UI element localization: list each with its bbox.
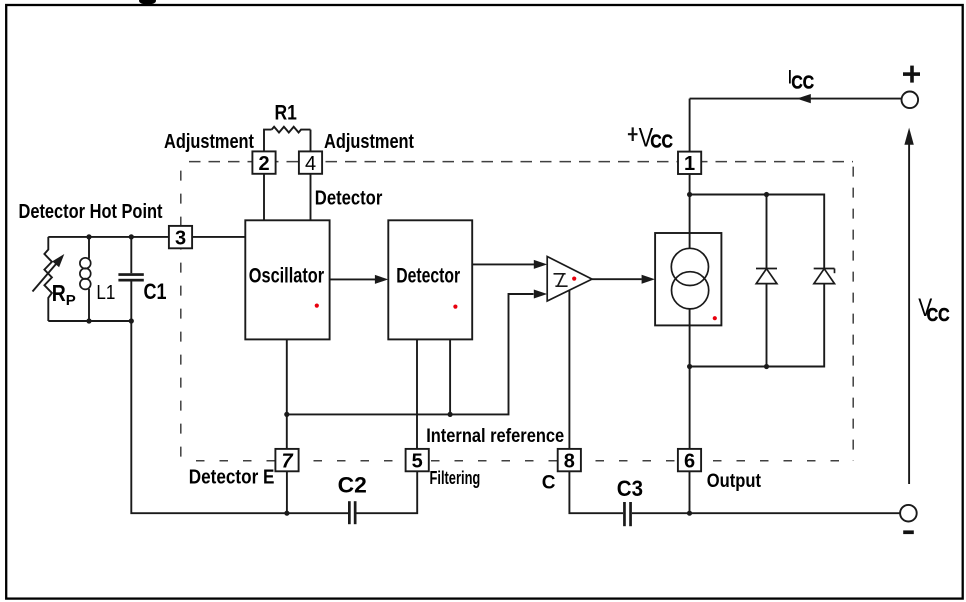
IC dashed boundary bottom edge (181, 460, 853, 462)
wire detector bottom to reference rail (449, 339, 451, 414)
svg-text:R: R (52, 280, 66, 306)
internal reference rail (287, 294, 534, 414)
wire RP L1 C1 bottom (48, 320, 131, 322)
diode D1 bottom lead (766, 284, 768, 367)
wire detector to comparator (472, 263, 534, 265)
svg-text:4: 4 (305, 153, 316, 175)
svg-text:2: 2 (258, 153, 269, 175)
wire pin 2 to oscillator (263, 174, 265, 221)
wire detector bottom to pin 5 (416, 339, 418, 449)
plus terminal (902, 92, 919, 109)
capacitor C1 plates (118, 273, 143, 276)
wire C1 bottom to lower bus (131, 321, 348, 513)
resistor R1 zigzag (272, 127, 311, 133)
VCC arrow shaft (908, 144, 910, 484)
junction dots left network (86, 234, 91, 239)
capacitor C2 plates (348, 501, 351, 524)
comparator hysteresis symbol (554, 274, 568, 286)
zener diode D2 (814, 269, 835, 284)
svg-text:7: 7 (281, 450, 293, 472)
svg-text:C3: C3 (617, 476, 643, 501)
svg-text:Filtering: Filtering (430, 468, 481, 488)
supply rail bottom (690, 284, 825, 367)
wire oscillator to detector (330, 278, 376, 280)
svg-text:P: P (66, 292, 76, 309)
svg-text:Adjustment: Adjustment (164, 131, 254, 153)
svg-text:C: C (542, 472, 556, 493)
current source block U4 (655, 233, 721, 325)
svg-text:Detector: Detector (396, 265, 460, 288)
pin 6 box (678, 449, 701, 471)
wire comparator output (592, 278, 642, 280)
pin 4 box (299, 151, 322, 173)
svg-text:CC: CC (791, 72, 814, 92)
oscillator block U1 (245, 220, 329, 339)
wire R1 right lead (310, 130, 312, 152)
inductor L1 lead bottom (88, 289, 90, 321)
arrowhead oscillator to detector (375, 275, 388, 284)
svg-text:Output: Output (707, 471, 762, 492)
pin 7 box (275, 449, 298, 471)
svg-text:R1: R1 (275, 102, 298, 125)
arrowhead reference to comparator (534, 290, 547, 299)
svg-text:C1: C1 (144, 279, 167, 304)
wire ICC line (690, 98, 902, 100)
junction dots reference rail (284, 412, 289, 417)
wire pin 4 to oscillator (310, 174, 312, 221)
svg-text:C2: C2 (338, 473, 367, 498)
svg-text:Internal reference: Internal reference (426, 426, 564, 447)
arrowhead comparator to current source (642, 275, 655, 284)
RP arrow (33, 264, 57, 292)
wire detector hot point to pin 3 (48, 236, 169, 238)
capacitor C3 plates (623, 502, 626, 526)
comparator U3 (547, 257, 592, 302)
wire plus terminal to pin 1 (689, 99, 691, 152)
arrowhead VCC (904, 128, 913, 145)
arrowhead detector to comparator (534, 260, 547, 269)
svg-text:Detector E: Detector E (189, 466, 275, 488)
minus terminal (900, 505, 917, 522)
svg-text:8: 8 (564, 450, 575, 472)
cropped title descender (139, 0, 156, 5)
wire pin 8 to C3 (569, 471, 623, 513)
label +VCC (628, 127, 638, 141)
wire pin 3 to oscillator (192, 236, 245, 238)
svg-text:3: 3 (175, 227, 186, 249)
current source circles (671, 248, 708, 309)
arrowhead ICC (797, 94, 811, 103)
pin 3 box (169, 226, 192, 248)
IC dashed boundary top edge (181, 161, 853, 163)
svg-text:5: 5 (412, 450, 423, 472)
svg-text:Detector Hot Point: Detector Hot Point (19, 201, 163, 223)
svg-text:Oscillator: Oscillator (249, 264, 324, 287)
supply rail top (690, 195, 825, 269)
wire oscillator bottom to pin 7 (286, 339, 288, 449)
IC dashed boundary right edge (852, 162, 854, 461)
pin 1 box (678, 152, 701, 174)
pin 8 box (558, 449, 581, 471)
resistor RP (44, 237, 52, 321)
detector block U2 (388, 220, 472, 339)
capacitor C1 leads (130, 237, 132, 273)
svg-text:L1: L1 (96, 282, 115, 304)
inductor L1 coils (80, 258, 91, 290)
wire pin 1 through current source to pin 6 (689, 174, 691, 449)
svg-text:Detector: Detector (315, 187, 383, 209)
svg-text:Adjustment: Adjustment (324, 131, 414, 153)
svg-text:CC: CC (927, 304, 950, 325)
junction dots bottom bus (284, 511, 289, 516)
wire pin 7 down (286, 471, 288, 513)
wire C2 to pin 5 (356, 471, 417, 513)
pin 5 box (406, 449, 429, 471)
wire R1 left lead (264, 130, 272, 152)
pin 2 box (252, 151, 275, 173)
IC dashed boundary left edge (180, 162, 182, 461)
diode D1 top lead (766, 195, 768, 269)
diode D1 (756, 269, 777, 284)
junction dots supply rails (687, 192, 692, 197)
inductor L1 lead top (88, 237, 90, 259)
svg-text:1: 1 (684, 153, 695, 175)
wire C3 to minus terminal (632, 512, 900, 514)
wire comparator to pin 8 (568, 290, 570, 449)
wire pin 6 down (689, 471, 691, 513)
svg-text:6: 6 (684, 450, 695, 472)
svg-text:CC: CC (650, 130, 673, 151)
